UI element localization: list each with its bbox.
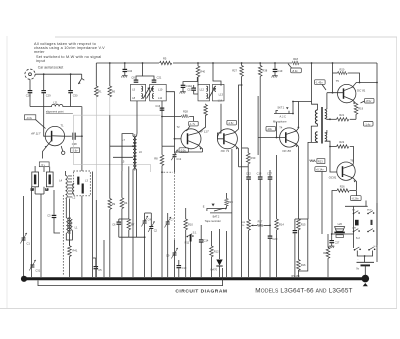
wire [70, 93, 72, 106]
transistor T6 OC81 [337, 162, 355, 180]
capacitor C29 [41, 90, 46, 93]
voltage box [364, 122, 374, 127]
svg-text:alignment point: alignment point [46, 109, 64, 113]
faint page edge left [6, 36, 8, 308]
switch S2b [367, 229, 374, 233]
svg-text:-8.5v: -8.5v [366, 99, 372, 103]
svg-text:C13: C13 [182, 266, 187, 270]
node a1 [43, 73, 45, 75]
svg-text:AF 117: AF 117 [30, 131, 41, 135]
feedback wire [321, 172, 323, 235]
svg-text:C1: C1 [27, 241, 31, 245]
capacitor C20 [269, 182, 271, 235]
svg-text:Tape recorder: Tape recorder [205, 219, 221, 223]
svg-text:R40: R40 [200, 69, 205, 73]
wire [119, 218, 129, 220]
svg-text:-: - [358, 258, 359, 261]
capacitor C10A [183, 77, 197, 85]
svg-text:Microphone: Microphone [273, 119, 287, 123]
svg-text:R6: R6 [112, 89, 116, 93]
coil L23 [77, 177, 79, 185]
T6 collector wire [343, 162, 353, 168]
ground [272, 76, 278, 78]
primary tap loop [311, 124, 317, 142]
wire [81, 196, 83, 277]
resistor R4 [121, 171, 123, 198]
transistor T5 OC81 [338, 84, 356, 102]
svg-text:-10v: -10v [267, 127, 273, 131]
svg-text:CIRCUIT DIAGRAM: CIRCUIT DIAGRAM [175, 289, 227, 295]
wire coil bottom leads [132, 169, 134, 277]
svg-text:S.2: S.2 [356, 236, 360, 240]
svg-text:C20: C20 [273, 237, 278, 241]
svg-text:R27: R27 [232, 68, 237, 72]
wire to battery [357, 251, 372, 257]
svg-text:-1.7v: -1.7v [189, 122, 195, 126]
capacitor C26 [293, 230, 298, 233]
resistor R14 [276, 155, 278, 219]
svg-text:R11: R11 [185, 241, 190, 245]
voltage box -5v [39, 162, 49, 167]
svg-text:-8.9v: -8.9v [292, 69, 298, 73]
capacitor C3 [53, 190, 55, 215]
T3 collector wire [225, 85, 242, 135]
svg-text:R23: R23 [318, 160, 323, 164]
transistor T3 OC71 [217, 129, 237, 149]
wire sec bot to T6 base [325, 141, 337, 172]
wire [43, 93, 45, 106]
capacitor C15 [191, 88, 196, 91]
svg-text:L12: L12 [200, 88, 205, 92]
svg-text:-0.5v: -0.5v [180, 149, 186, 153]
wire top rail [300, 62, 378, 64]
voltage box +1.5v [227, 120, 237, 125]
wire right rail [376, 63, 378, 262]
node [81, 135, 83, 137]
T4 collector wire [287, 102, 312, 135]
svg-text:C7: C7 [170, 218, 174, 222]
wire top rail [96, 62, 159, 64]
svg-text:C27: C27 [335, 241, 340, 245]
svg-text:SKT.1: SKT.1 [277, 105, 284, 109]
resistor R30 [247, 148, 249, 153]
svg-text:R8: R8 [154, 156, 158, 160]
wire [43, 74, 45, 90]
svg-text:R29: R29 [228, 200, 233, 204]
svg-text:RS-166: RS-166 [292, 275, 301, 278]
wire battery to bus dot [364, 265, 366, 276]
capacitor C5 [95, 258, 97, 266]
capacitor C6 [118, 219, 120, 222]
svg-text:C18: C18 [257, 172, 262, 176]
T4 base wire [258, 137, 286, 139]
svg-text:L21: L21 [53, 100, 58, 104]
svg-text:OC81: OC81 [329, 175, 337, 179]
svg-text:L13: L13 [219, 92, 224, 96]
svg-text:C29: C29 [46, 93, 51, 97]
aerial socket J1 [25, 69, 35, 79]
T2 emitter wire [188, 141, 202, 152]
svg-text:C10A: C10A [186, 84, 193, 88]
wire [70, 74, 72, 90]
wire coil taps [110, 145, 133, 147]
ground [328, 246, 334, 248]
capacitor C34 [124, 63, 126, 69]
svg-text:-5 v: -5 v [41, 163, 46, 167]
T3 emitter wire [225, 141, 239, 167]
coil L6 can [45, 172, 53, 191]
tuning gang C1 [20, 233, 27, 244]
voltage box +0.14v [315, 167, 327, 172]
capacitor C21 [152, 80, 157, 83]
svg-text:MODELS L3G64T-66 AND L3G65T: MODELS L3G64T-66 AND L3G65T [255, 288, 352, 295]
IF transformer IFT2 [198, 84, 210, 101]
wire primary bottom [308, 142, 311, 219]
label box R23 [317, 159, 325, 164]
svg-text:C12: C12 [176, 157, 181, 161]
IF transformer IFT1 [131, 84, 146, 101]
svg-text:C22: C22 [246, 172, 251, 176]
svg-text:R41: R41 [73, 249, 78, 253]
svg-text:C21: C21 [157, 75, 162, 79]
voltage box -8.9v [291, 68, 302, 73]
T5 collector wire [344, 83, 377, 91]
svg-text:R16: R16 [301, 263, 306, 267]
svg-text:C4: C4 [148, 217, 152, 221]
wire R8 top link [162, 145, 175, 147]
svg-text:OC 80: OC 80 [282, 149, 291, 153]
capacitor C19 [274, 63, 276, 69]
svg-text:L14: L14 [218, 98, 223, 102]
svg-text:C34: C34 [127, 69, 132, 73]
voltage box -0.4v [25, 115, 36, 120]
switch S2a [353, 229, 360, 233]
wire [332, 63, 334, 93]
trimmer C7 [165, 217, 172, 228]
svg-text:BAT.2: BAT.2 [213, 214, 220, 218]
svg-text:R22: R22 [339, 140, 344, 144]
svg-text:C6: C6 [112, 222, 116, 226]
wire tuned line drop [81, 107, 83, 172]
svg-text:E: E [203, 205, 205, 209]
wire row bottom [119, 236, 145, 238]
resistor R20 [338, 71, 348, 74]
svg-text:L10: L10 [158, 88, 163, 92]
capacitor C30 [68, 90, 73, 93]
svg-text:R21: R21 [339, 113, 344, 117]
coil L5 can [31, 172, 39, 191]
ferrite rod box dashed [73, 171, 90, 196]
svg-text:R12: R12 [214, 249, 219, 253]
wire speaker bus [332, 233, 354, 235]
capacitor C27 [331, 234, 333, 240]
svg-text:R7: R7 [131, 222, 135, 226]
svg-text:L11: L11 [158, 96, 163, 100]
switch S2c [354, 247, 361, 251]
bypass loop wires [298, 219, 307, 271]
thermistor network R15/R16 [297, 219, 301, 230]
wire [225, 231, 227, 277]
svg-text:R5: R5 [163, 57, 167, 61]
test point [62, 151, 65, 154]
svg-text:C15: C15 [187, 88, 192, 92]
svg-text:R4: R4 [124, 201, 128, 205]
wire misc drops [103, 240, 105, 277]
svg-text:C30: C30 [73, 93, 78, 97]
voltage box -8.5v [365, 98, 375, 103]
voltage box -1.6v [71, 148, 80, 153]
note text block [34, 42, 105, 63]
wire coil top leads [122, 134, 133, 171]
capacitor C38 [72, 133, 77, 147]
svg-text:R9: R9 [112, 202, 116, 206]
wire [345, 205, 368, 207]
pointer wire [288, 64, 292, 68]
resistor R12 [210, 231, 212, 246]
wire [213, 63, 221, 86]
wire T1 base drop [44, 107, 46, 137]
ground [121, 76, 127, 78]
voltage box -1.45v [315, 80, 326, 85]
resistor R9 [108, 199, 112, 210]
resistor R5 [160, 61, 172, 64]
wire top rail [173, 62, 292, 64]
transistor T4 OC75 [280, 128, 299, 147]
capacitor C28 [28, 90, 33, 93]
svg-text:-1.6v: -1.6v [72, 149, 78, 153]
slide contact bar [190, 234, 192, 241]
coupling coils L7/L6/L5 [133, 134, 137, 170]
gang link dashed [62, 195, 64, 276]
wire [76, 135, 82, 137]
capacitor C13 [177, 265, 182, 268]
resistor R26 [337, 189, 349, 192]
voltage box -1.75v [189, 121, 199, 126]
svg-text:-0.4v: -0.4v [26, 116, 32, 120]
transistor T1 AF117 [45, 126, 64, 145]
T6 emitter wire [343, 174, 356, 190]
gang section C12 [174, 139, 176, 154]
trimmer C9 [171, 248, 178, 259]
svg-text:R20: R20 [340, 68, 345, 72]
resistor R7 (left leg) [95, 63, 97, 86]
resistor R17 [257, 224, 263, 226]
resistor R22 [337, 145, 349, 148]
ground stub under right dot [363, 283, 368, 286]
T2 base wire [175, 138, 182, 140]
svg-text:R15: R15 [301, 222, 306, 226]
svg-text:C2: C2 [154, 228, 158, 232]
svg-text:input: input [36, 59, 46, 63]
driver transformer TR1 [312, 63, 318, 110]
resistor R40 [197, 63, 199, 66]
wafer bar [355, 220, 359, 226]
wire sec top to T5 base [325, 93, 327, 110]
svg-text:R10: R10 [188, 222, 193, 226]
T4 emitter wire [287, 140, 299, 219]
svg-text:R25: R25 [323, 251, 328, 255]
pointer wire [36, 120, 46, 129]
resistor R41 [69, 199, 71, 246]
rail node dots [109, 62, 111, 64]
wire sec mid [325, 118, 330, 119]
capacitor C14 [200, 225, 202, 239]
volume pot R13 [241, 218, 243, 277]
wire [23, 196, 25, 277]
resistor R27 [241, 63, 243, 66]
svg-text:+0.14v: +0.14v [316, 168, 325, 172]
wire diode top [219, 229, 221, 236]
wire IFT1 sec leads [161, 101, 163, 146]
svg-text:C38: C38 [72, 142, 77, 146]
svg-text:C14: C14 [204, 239, 209, 243]
svg-text:R18: R18 [293, 57, 298, 61]
chassis bus bar [23, 277, 365, 280]
wire from R26 [331, 196, 333, 234]
svg-text:OC 71: OC 71 [221, 149, 230, 153]
wire feed [136, 63, 143, 80]
wire aerial bus [35, 73, 82, 75]
T5 base wire [327, 92, 344, 94]
capacitor C16 [160, 108, 165, 111]
resistor R38 [259, 63, 261, 66]
svg-text:A.J.C: A.J.C [280, 115, 286, 119]
trimmer C31 [29, 260, 36, 271]
wire emitter to C12 column [175, 151, 203, 153]
svg-text:C16: C16 [155, 104, 160, 108]
voltage box [266, 126, 276, 131]
osc transformer L1/L2 [66, 175, 75, 199]
svg-text:C8: C8 [131, 75, 135, 79]
switch S1a [353, 211, 360, 215]
capacitor C8 [134, 80, 139, 83]
resistor R29 [225, 199, 229, 207]
svg-text:R14: R14 [279, 222, 284, 226]
resistor R26 vert [204, 105, 208, 116]
svg-text:R26: R26 [340, 185, 345, 189]
svg-text:-1.45v: -1.45v [315, 81, 323, 85]
svg-text:Set switched to M.W with no si: Set switched to M.W with no signal [36, 55, 101, 59]
svg-text:S.1: S.1 [193, 231, 197, 235]
svg-text:C31: C31 [35, 268, 40, 272]
resistor R25 [327, 234, 329, 248]
aerial plug arrow [78, 74, 84, 84]
svg-text:Car aerial socket: Car aerial socket [38, 66, 63, 70]
resistor R21 [337, 118, 349, 121]
svg-text:OA70: OA70 [210, 268, 217, 272]
svg-text:-0.26v: -0.26v [352, 197, 360, 201]
bus left terminal dot [21, 276, 27, 282]
wire [29, 93, 31, 106]
voltage box [179, 148, 189, 153]
svg-text:-1.5v: -1.5v [228, 121, 234, 125]
T2 collector wire [188, 115, 205, 136]
resistor R7 [127, 219, 131, 230]
wire [65, 171, 67, 176]
wire left long [31, 187, 33, 277]
trimmer C4 [141, 216, 148, 227]
node a2 [70, 73, 72, 75]
switch S2d [368, 247, 375, 251]
switch S1 [187, 234, 194, 238]
bus right terminal dot [362, 275, 370, 283]
svg-text:C19: C19 [278, 69, 283, 73]
T1 collector wire [65, 135, 72, 137]
resistor R19 [354, 104, 358, 115]
svg-text:C5: C5 [98, 268, 102, 272]
svg-text:R19: R19 [358, 107, 363, 111]
switch S1b [367, 211, 374, 215]
label box 0A90 [351, 196, 362, 201]
svg-text:-1.4v: -1.4v [365, 122, 371, 126]
svg-text:C3: C3 [47, 213, 51, 217]
resistor R8 [160, 155, 164, 166]
wire osc right drop [92, 172, 94, 278]
T1 emitter wire [43, 140, 52, 159]
svg-text:R38: R38 [262, 68, 267, 72]
osc transformer L1/L2 [66, 218, 72, 234]
diode OA70 [219, 236, 221, 259]
T5 emitter wire [344, 97, 356, 104]
battery B1 9v [357, 261, 375, 263]
svg-text:OC 81: OC 81 [357, 88, 366, 92]
wire socket drop [29, 79, 31, 90]
coil L24 [82, 184, 84, 194]
resistor R18 [292, 61, 299, 64]
T3 base wire [217, 104, 224, 139]
agc line grey [74, 115, 161, 172]
svg-text:R1: R1 [98, 89, 102, 93]
faint scan border top [55, 36, 397, 38]
wire emitter T3 row [231, 149, 233, 277]
faint scan border right [396, 37, 398, 309]
wire [43, 167, 45, 172]
gang section C2 [148, 221, 155, 232]
wire [40, 194, 42, 277]
svg-text:meter: meter [34, 50, 45, 54]
resistor R10 [184, 219, 188, 230]
transistor T2 AF117 [181, 129, 201, 149]
return wire below bus [38, 268, 223, 286]
svg-text:L20: L20 [338, 222, 343, 226]
resistor R6 [109, 63, 111, 86]
svg-text:R30: R30 [251, 156, 256, 160]
gang dashed link [164, 171, 174, 173]
